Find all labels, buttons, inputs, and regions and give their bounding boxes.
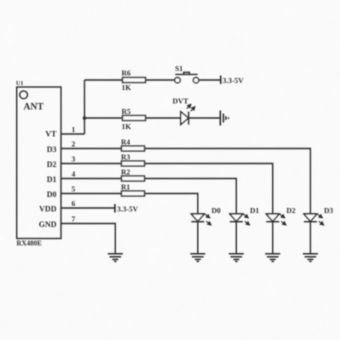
- resistor R5: [123, 116, 146, 121]
- wire R4 to LED D3: [145, 149, 311, 214]
- wire vertical VT riser: [84, 80, 86, 134]
- svg-text:D1: D1: [47, 175, 57, 184]
- svg-text:3: 3: [72, 155, 76, 164]
- switch S1: [175, 72, 199, 83]
- svg-text:D0: D0: [212, 206, 221, 215]
- svg-text:VDD: VDD: [39, 205, 57, 214]
- wire R1 to LED D0: [145, 194, 198, 214]
- resistor R1: [122, 191, 145, 196]
- wire D0 to ground: [197, 222, 199, 254]
- ground D2: [265, 254, 280, 262]
- svg-text:6: 6: [72, 199, 76, 208]
- svg-text:7: 7: [72, 215, 76, 224]
- wire pin4 D1 row: [61, 178, 122, 180]
- LED DVT: [181, 104, 195, 124]
- wire D3 to ground: [309, 222, 311, 254]
- wire pin5 D0 row: [61, 193, 122, 195]
- svg-text:1K: 1K: [122, 122, 132, 131]
- svg-text:R1: R1: [121, 183, 130, 192]
- resistor R4: [122, 146, 145, 151]
- svg-text:R4: R4: [121, 138, 130, 147]
- wire pin1 VT to junction: [61, 133, 85, 135]
- svg-text:VT: VT: [45, 130, 57, 139]
- wire D2 to ground: [272, 222, 274, 254]
- wire D1 to ground: [235, 222, 237, 254]
- wire pin6 VDD to supply: [61, 207, 115, 209]
- ground right-facing earth: [220, 111, 228, 126]
- op-amp U1: [17, 87, 61, 239]
- node junction dot: [83, 116, 87, 120]
- svg-text:1: 1: [72, 125, 76, 134]
- wire R6 row left: [85, 79, 123, 81]
- svg-text:2: 2: [72, 140, 76, 149]
- svg-text:R6: R6: [122, 69, 131, 78]
- ground D1: [229, 254, 244, 262]
- wire pin2 D3 row: [61, 148, 122, 150]
- wire R3 to LED D2: [145, 164, 273, 214]
- svg-text:D3: D3: [47, 145, 57, 154]
- wire S1 to supply: [199, 79, 221, 81]
- svg-text:D2: D2: [286, 206, 295, 215]
- wire pin3 D2 row: [61, 163, 122, 165]
- svg-text:5: 5: [72, 185, 76, 194]
- svg-text:D3: D3: [324, 206, 333, 215]
- svg-text:R5: R5: [122, 107, 131, 116]
- svg-text:GND: GND: [39, 220, 57, 229]
- power terminal 3.3-5V VDD: [114, 204, 116, 213]
- wire R5 row left: [85, 117, 123, 119]
- svg-text:D1: D1: [250, 206, 259, 215]
- svg-text:D0: D0: [47, 190, 57, 199]
- svg-text:RX480E: RX480E: [17, 240, 43, 248]
- svg-text:3.3-5V: 3.3-5V: [223, 76, 245, 85]
- svg-text:R3: R3: [121, 153, 130, 162]
- ground D0: [190, 254, 205, 262]
- wire R6 to S1: [146, 79, 175, 81]
- resistor R2: [122, 176, 145, 181]
- LED D3: [304, 214, 324, 225]
- LED D2: [266, 214, 286, 225]
- wire DVT to ground: [189, 117, 221, 119]
- svg-text:D2: D2: [47, 160, 57, 169]
- power terminal 3.3-5V top: [220, 76, 222, 85]
- svg-text:S1: S1: [175, 64, 183, 73]
- resistor R3: [122, 161, 145, 166]
- LED D0: [191, 214, 211, 225]
- wire pin7 GND: [61, 224, 115, 254]
- wire R2 to LED D1: [145, 179, 237, 214]
- ground D3: [303, 254, 318, 262]
- svg-text:R2: R2: [121, 168, 130, 177]
- svg-text:U1: U1: [16, 81, 23, 87]
- svg-text:3.3-5V: 3.3-5V: [117, 205, 139, 214]
- resistor R6: [123, 78, 146, 83]
- ground GND pin: [108, 254, 123, 262]
- wire R5 to DVT: [146, 117, 181, 119]
- svg-text:ANT: ANT: [24, 103, 45, 113]
- svg-text:DVT: DVT: [173, 97, 189, 106]
- svg-text:4: 4: [72, 170, 76, 179]
- LED D1: [230, 214, 250, 225]
- svg-text:1K: 1K: [122, 83, 132, 92]
